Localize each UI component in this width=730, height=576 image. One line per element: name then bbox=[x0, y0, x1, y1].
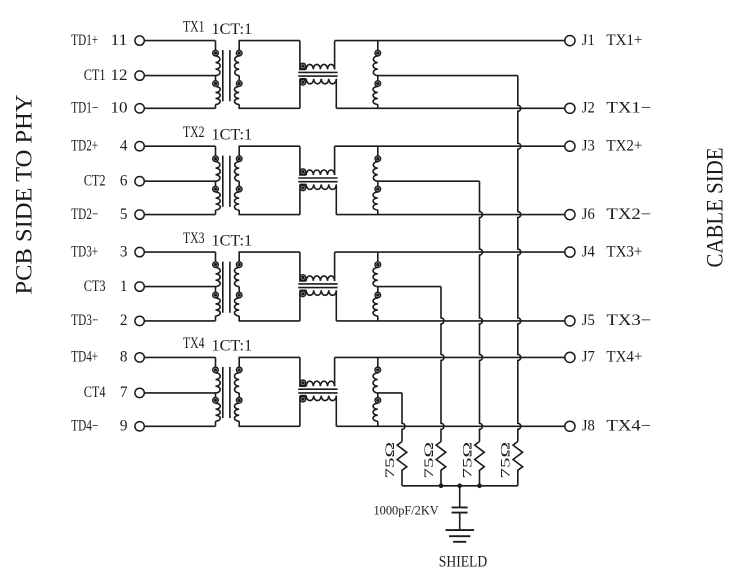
wire choke to J6 bbox=[336, 214, 565, 216]
terminal circle CT3 bbox=[135, 282, 144, 291]
svg-text:TX1: TX1 bbox=[183, 18, 205, 35]
pin number 4 bbox=[120, 137, 128, 154]
transformer label TX1 bbox=[183, 18, 205, 35]
svg-text:TX3−: TX3− bbox=[606, 312, 651, 329]
wire TD3- to transformer bbox=[144, 320, 215, 322]
svg-text:1000pF/2KV: 1000pF/2KV bbox=[374, 502, 440, 517]
pin CT1 bbox=[84, 67, 106, 84]
terminal circle TD4+ bbox=[135, 353, 144, 362]
svg-text:J2: J2 bbox=[582, 100, 595, 117]
svg-text:TX2−: TX2− bbox=[606, 206, 651, 223]
svg-text:PCB SIDE TO PHY: PCB SIDE TO PHY bbox=[12, 95, 38, 295]
svg-text:75Ω: 75Ω bbox=[422, 442, 436, 479]
svg-text:75Ω: 75Ω bbox=[383, 442, 397, 479]
svg-text:6: 6 bbox=[120, 172, 128, 189]
terminal circle CT1 bbox=[135, 71, 144, 80]
svg-text:2: 2 bbox=[120, 312, 128, 329]
svg-text:CT2: CT2 bbox=[84, 172, 106, 189]
transformer TX2 primary winding bbox=[213, 146, 221, 214]
pin number 9 bbox=[120, 418, 128, 435]
svg-text:J4: J4 bbox=[582, 243, 595, 260]
pin TD2- bbox=[71, 206, 98, 223]
value label 75 ohm R1 bbox=[499, 442, 513, 479]
pin label J2 bbox=[582, 100, 595, 117]
value label 75 ohm R4 bbox=[383, 442, 397, 479]
resistor R2 75ohm bbox=[475, 442, 485, 486]
wire choke to J5 bbox=[336, 320, 565, 322]
svg-text:8: 8 bbox=[120, 349, 128, 366]
transformer TX4 core bbox=[223, 367, 230, 418]
terminal circle TD2- bbox=[135, 210, 144, 219]
wire choke to J3 bbox=[335, 145, 565, 147]
pin number 3 bbox=[120, 243, 128, 260]
svg-text:1: 1 bbox=[120, 278, 128, 295]
svg-text:TX4: TX4 bbox=[183, 335, 205, 352]
net label TX1- bbox=[606, 100, 651, 117]
svg-text:CABLE SIDE: CABLE SIDE bbox=[702, 148, 728, 268]
wire center tap TX2 to resistor bbox=[378, 181, 483, 441]
terminal circle J8 bbox=[565, 421, 575, 431]
terminal circle TD2+ bbox=[135, 142, 144, 151]
wire TD2+ to transformer bbox=[144, 145, 215, 147]
transformer TX4 primary winding bbox=[213, 357, 221, 426]
pin number 12 bbox=[111, 67, 128, 84]
wire TD3+ to transformer bbox=[144, 251, 215, 253]
choke TX1 core bbox=[298, 72, 337, 76]
transformer TX3 secondary winding bbox=[234, 252, 299, 321]
svg-text:TD1−: TD1− bbox=[71, 100, 98, 117]
wire center tap TX4 to resistor bbox=[378, 393, 405, 442]
ratio label 1CT:1 bbox=[212, 338, 253, 355]
svg-text:4: 4 bbox=[120, 137, 128, 154]
pin number 11 bbox=[111, 32, 128, 49]
choke TX4 bottom winding bbox=[300, 396, 336, 427]
wire TD1- to transformer bbox=[144, 107, 215, 109]
svg-text:TX2: TX2 bbox=[183, 124, 205, 141]
terminal circle J7 bbox=[565, 352, 575, 362]
terminal circle TD4- bbox=[135, 422, 144, 431]
pin number 10 bbox=[111, 100, 128, 117]
transformer TX1 primary winding bbox=[213, 41, 221, 109]
svg-text:TX2+: TX2+ bbox=[606, 137, 642, 154]
wire TD4+ to transformer bbox=[144, 356, 215, 358]
wire TD1+ to transformer bbox=[144, 40, 215, 42]
pin label J1 bbox=[582, 32, 595, 49]
svg-text:TD2−: TD2− bbox=[71, 206, 98, 223]
pin TD2+ bbox=[71, 137, 98, 154]
terminal circle J5 bbox=[565, 316, 575, 326]
pin number 1 bbox=[120, 278, 128, 295]
terminal circle TD1- bbox=[135, 104, 144, 113]
transformer TX3 primary winding bbox=[213, 252, 221, 321]
autotransformer winding TX2 output bbox=[373, 146, 381, 214]
pin number 7 bbox=[120, 384, 128, 401]
wire choke to J1 bbox=[335, 40, 565, 42]
net label TX3- bbox=[606, 312, 651, 329]
node CABLE SIDE bbox=[702, 148, 728, 268]
pin number 2 bbox=[120, 312, 128, 329]
ratio label 1CT:1 bbox=[212, 232, 253, 249]
svg-text:1CT:1: 1CT:1 bbox=[212, 232, 253, 249]
choke TX1 top winding bbox=[300, 41, 335, 70]
choke TX2 bottom winding bbox=[300, 184, 336, 214]
terminal circle CT2 bbox=[135, 177, 144, 186]
svg-text:5: 5 bbox=[120, 206, 128, 223]
pin TD3+ bbox=[71, 243, 98, 260]
svg-text:TX1−: TX1− bbox=[606, 100, 651, 117]
pin TD1+ bbox=[71, 32, 98, 49]
pin label J6 bbox=[582, 206, 595, 223]
choke TX1 bottom winding bbox=[300, 79, 336, 109]
junction dot bbox=[457, 484, 462, 489]
net label TX3+ bbox=[606, 243, 642, 260]
svg-text:TD1+: TD1+ bbox=[71, 32, 98, 49]
autotransformer winding TX1 output bbox=[373, 41, 381, 109]
transformer TX3 core bbox=[223, 262, 230, 313]
pin TD3- bbox=[71, 312, 98, 329]
junction dot bbox=[477, 484, 482, 489]
terminal circle J2 bbox=[565, 103, 575, 113]
svg-text:TX4−: TX4− bbox=[606, 418, 651, 435]
wire rail to capacitor bbox=[459, 486, 461, 508]
node PCB SIDE TO PHY bbox=[12, 95, 38, 295]
pin CT2 bbox=[84, 172, 106, 189]
svg-text:7: 7 bbox=[120, 384, 128, 401]
svg-text:J1: J1 bbox=[582, 32, 595, 49]
net label TX1+ bbox=[606, 32, 642, 49]
terminal circle J3 bbox=[565, 141, 575, 151]
wire common rail bbox=[402, 485, 518, 487]
wire choke to J4 bbox=[335, 251, 565, 253]
ratio label 1CT:1 bbox=[212, 21, 253, 38]
svg-text:3: 3 bbox=[120, 243, 128, 260]
pin TD1- bbox=[71, 100, 98, 117]
svg-text:J5: J5 bbox=[582, 312, 595, 329]
svg-text:CT3: CT3 bbox=[84, 278, 106, 295]
ratio label 1CT:1 bbox=[212, 126, 253, 143]
choke TX3 top winding bbox=[300, 252, 335, 281]
pin label J4 bbox=[582, 243, 595, 260]
svg-text:75Ω: 75Ω bbox=[460, 442, 474, 479]
svg-text:J8: J8 bbox=[582, 418, 595, 435]
net label TX4- bbox=[606, 418, 651, 435]
value label 75 ohm R3 bbox=[422, 442, 436, 479]
choke TX2 top winding bbox=[300, 146, 335, 175]
value label 1000pF/2KV bbox=[374, 502, 440, 517]
pin label J8 bbox=[582, 418, 595, 435]
pin number 5 bbox=[120, 206, 128, 223]
choke TX4 top winding bbox=[300, 357, 335, 386]
pin CT3 bbox=[84, 278, 106, 295]
svg-text:9: 9 bbox=[120, 418, 128, 435]
wire center tap TX3 to resistor bbox=[378, 287, 444, 442]
choke TX3 core bbox=[298, 284, 337, 288]
svg-text:TX3: TX3 bbox=[183, 230, 205, 247]
pin CT4 bbox=[84, 384, 106, 401]
autotransformer winding TX3 output bbox=[373, 252, 381, 321]
value label 75 ohm R2 bbox=[460, 442, 474, 479]
pin label J7 bbox=[582, 349, 595, 366]
svg-text:CT1: CT1 bbox=[84, 67, 106, 84]
pin number 8 bbox=[120, 349, 128, 366]
wire choke to J8 bbox=[336, 425, 565, 427]
resistor R1 75ohm bbox=[513, 442, 523, 486]
svg-text:1CT:1: 1CT:1 bbox=[212, 126, 253, 143]
wire choke to J7 bbox=[335, 356, 565, 358]
choke TX4 core bbox=[298, 389, 337, 393]
transformer label TX3 bbox=[183, 230, 205, 247]
svg-text:10: 10 bbox=[111, 100, 128, 117]
transformer TX2 core bbox=[223, 156, 230, 207]
resistor R4 75ohm bbox=[397, 442, 407, 486]
svg-text:11: 11 bbox=[111, 32, 128, 49]
wire TD2- to transformer bbox=[144, 214, 215, 216]
wire choke to J2 bbox=[336, 107, 565, 109]
transformer TX4 secondary winding bbox=[234, 357, 299, 426]
svg-text:SHIELD: SHIELD bbox=[439, 554, 487, 571]
svg-text:J7: J7 bbox=[582, 349, 595, 366]
pin label J5 bbox=[582, 312, 595, 329]
svg-text:75Ω: 75Ω bbox=[499, 442, 513, 479]
terminal circle J6 bbox=[565, 210, 575, 220]
svg-text:12: 12 bbox=[111, 67, 128, 84]
terminal circle J1 bbox=[565, 36, 575, 46]
svg-text:TD4−: TD4− bbox=[71, 418, 98, 435]
wire CT1 to transformer bbox=[144, 75, 215, 77]
ground SHIELD earth symbol bbox=[446, 530, 475, 542]
svg-text:TD2+: TD2+ bbox=[71, 137, 98, 154]
resistor R3 75ohm bbox=[436, 442, 446, 486]
junction dot bbox=[439, 484, 444, 489]
wire center tap TX1 to resistor bbox=[378, 76, 521, 442]
svg-text:1CT:1: 1CT:1 bbox=[212, 338, 253, 355]
terminal circle TD3+ bbox=[135, 247, 144, 256]
transformer TX2 secondary winding bbox=[234, 146, 299, 214]
svg-text:1CT:1: 1CT:1 bbox=[212, 21, 253, 38]
net label TX2- bbox=[606, 206, 651, 223]
transformer TX1 secondary winding bbox=[234, 41, 299, 109]
svg-text:J6: J6 bbox=[582, 206, 595, 223]
svg-text:TD3−: TD3− bbox=[71, 312, 98, 329]
svg-text:CT4: CT4 bbox=[84, 384, 106, 401]
terminal circle TD1+ bbox=[135, 36, 144, 45]
pin number 6 bbox=[120, 172, 128, 189]
svg-text:TD3+: TD3+ bbox=[71, 243, 98, 260]
svg-text:TX4+: TX4+ bbox=[606, 349, 642, 366]
transformer TX1 core bbox=[223, 50, 230, 101]
terminal circle CT4 bbox=[135, 388, 144, 397]
wire CT2 to transformer bbox=[144, 180, 215, 182]
svg-text:TX3+: TX3+ bbox=[606, 243, 642, 260]
net label TX4+ bbox=[606, 349, 642, 366]
net label SHIELD bbox=[439, 554, 487, 571]
terminal circle J4 bbox=[565, 247, 575, 257]
wire TD4- to transformer bbox=[144, 425, 215, 427]
pin TD4+ bbox=[71, 349, 98, 366]
choke TX2 core bbox=[298, 178, 337, 182]
pin label J3 bbox=[582, 137, 595, 154]
capacitor C1 1000pF/2KV bbox=[452, 507, 468, 512]
wire CT3 to transformer bbox=[144, 286, 215, 288]
wire CT4 to transformer bbox=[144, 392, 215, 394]
transformer label TX4 bbox=[183, 335, 205, 352]
pin TD4- bbox=[71, 418, 98, 435]
terminal circle TD3- bbox=[135, 316, 144, 325]
transformer label TX2 bbox=[183, 124, 205, 141]
autotransformer winding TX4 output bbox=[373, 357, 381, 426]
wire capacitor to ground bbox=[459, 513, 461, 531]
choke TX3 bottom winding bbox=[300, 290, 336, 321]
svg-text:TX1+: TX1+ bbox=[606, 32, 642, 49]
net label TX2+ bbox=[606, 137, 642, 154]
svg-text:J3: J3 bbox=[582, 137, 595, 154]
svg-text:TD4+: TD4+ bbox=[71, 349, 98, 366]
